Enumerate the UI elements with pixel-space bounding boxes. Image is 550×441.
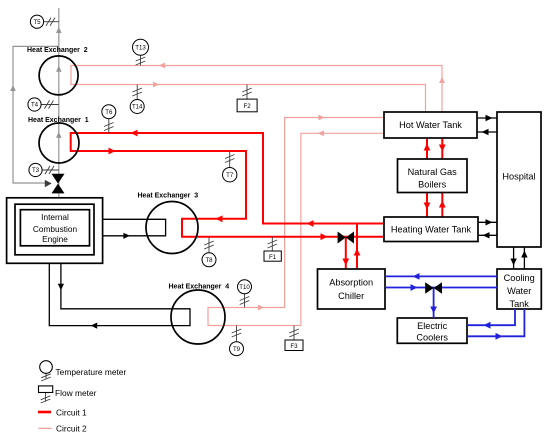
Heating Water Tank box — [384, 217, 478, 242]
temperature meter T9 — [230, 326, 244, 356]
circuit 1 pipe: Absorption Chiller return riser — [356, 224, 358, 270]
arrow right on circuit2 into Hot Water Tank — [319, 115, 325, 121]
pipe: valve down to Electric Coolers (blue) — [430, 288, 437, 318]
circuit 1 pipe: Heating Water Tank to HE1 to HE3 loop — [71, 133, 384, 237]
pipe: Hot Water Tank to boilers left — [426, 138, 428, 159]
svg-text:F3: F3 — [290, 343, 298, 350]
arrow left on engine-HE4 return — [91, 323, 97, 329]
legend: temperature meter symbol — [40, 361, 53, 381]
arrow up on main vertical in HE1 — [56, 132, 62, 138]
svg-text:T14: T14 — [132, 104, 143, 111]
svg-text:F2: F2 — [243, 103, 251, 110]
pipe: engine to HE4 loop — [49, 246, 190, 326]
pipe: Cooling Water Tank to Absorption Chiller (blue) — [385, 273, 497, 280]
pipe: Hospital to Hot Water Tank return — [477, 129, 497, 135]
flow meter F2 — [237, 85, 257, 112]
arrow right into valve — [45, 180, 52, 187]
svg-text:Flow meter: Flow meter — [55, 388, 97, 398]
arrow right on engine-HE3 lower pipe — [123, 233, 129, 239]
circuit 2 pipe: HE2 to Hot Water Tank loop — [71, 66, 442, 112]
heat exchanger 4 circle — [171, 290, 225, 344]
svg-text:T8: T8 — [205, 257, 213, 264]
pipe: Cooling Water Tank up to Hospital — [521, 247, 527, 269]
heat exchanger 1 circle — [39, 123, 79, 163]
pipe: Heating Water Tank to Hospital supply — [478, 219, 497, 225]
arrow up into boilers from Heating Water Tank — [439, 201, 446, 208]
svg-text:T9: T9 — [233, 346, 241, 353]
Cooling Water Tank box — [497, 269, 541, 309]
arrow down into Absorption Chiller — [342, 259, 349, 266]
pipe: engine to HE3 loop — [90, 219, 166, 236]
svg-text:Combustion: Combustion — [33, 224, 78, 234]
wire: left bypass loop — [13, 46, 59, 183]
svg-text:Chiller: Chiller — [338, 291, 364, 301]
svg-text:Tank: Tank — [509, 299, 529, 309]
valve V2 (three-way on circuit 1, horizontal bowtie) — [338, 232, 354, 244]
arrow up on main vertical below T5 — [56, 27, 62, 33]
svg-text:Circuit 2: Circuit 2 — [56, 424, 87, 434]
arrow left on circuit1 from Heating Water Tank — [307, 220, 314, 227]
temperature meter T4 — [28, 98, 59, 111]
svg-text:T4: T4 — [31, 102, 39, 109]
arrow left on circuit1 into HE1 — [131, 130, 138, 137]
svg-text:Heat Exchanger 4: Heat Exchanger 4 — [169, 284, 230, 291]
svg-text:Circuit 1: Circuit 1 — [56, 407, 87, 417]
Hot Water Tank box — [384, 112, 477, 138]
arrow left on circuit2 toward HE2 — [159, 63, 165, 69]
arrow up from Absorption Chiller — [354, 249, 361, 256]
circuit 2 pipe: Hot Water Tank to HE4 loop — [208, 118, 384, 326]
arrow right on circuit1 from HE1 — [109, 148, 116, 155]
svg-text:Heat Exchanger 2: Heat Exchanger 2 — [27, 47, 88, 54]
engine inner box — [20, 210, 89, 246]
svg-text:T7: T7 — [226, 172, 234, 179]
pipe: Hospital down to Cooling Water Tank — [510, 247, 516, 269]
svg-text:F1: F1 — [269, 254, 277, 261]
engine outer box — [7, 198, 103, 263]
svg-text:Heating Water Tank: Heating Water Tank — [391, 225, 472, 235]
svg-text:Electric: Electric — [417, 321, 448, 331]
temperature meter T14 — [130, 85, 144, 114]
flow meter F3 — [285, 326, 303, 351]
temperature meter T10 — [238, 280, 252, 308]
pipe: boilers to Heating Water Tank right — [441, 193, 443, 218]
Hospital box — [497, 112, 541, 247]
temperature meter T6 — [102, 105, 116, 133]
arrow right on circuit2 from HE2 — [153, 82, 159, 88]
Electric Coolers box — [397, 318, 467, 343]
arrow up on left bypass loop — [10, 85, 16, 91]
svg-text:Water: Water — [507, 286, 531, 296]
temperature meter T8 — [202, 238, 216, 267]
flow meter F1 — [264, 237, 281, 262]
circuit 1 pipe: valve to Absorption Chiller — [345, 238, 347, 270]
svg-text:T3: T3 — [32, 167, 40, 174]
svg-text:Heat Exchanger 3: Heat Exchanger 3 — [138, 193, 199, 200]
svg-text:Cooling: Cooling — [504, 273, 535, 283]
heat exchanger 2 circle — [39, 56, 78, 95]
temperature meter T5 — [30, 15, 58, 28]
pipe: Hospital to Heating Water Tank return — [478, 232, 497, 238]
svg-text:T6: T6 — [105, 109, 113, 116]
arrow right on circuit1 from HE3 — [321, 233, 328, 240]
legend: flow meter symbol — [39, 386, 53, 403]
svg-text:Heat Exchanger 1: Heat Exchanger 1 — [28, 117, 89, 124]
temperature meter T3 — [29, 163, 59, 176]
pipe: Absorption Chiller to Cooling Water Tank (blue) — [385, 284, 497, 291]
wire: engine-jacket main vertical pipe — [58, 8, 60, 198]
arrow right on circuit2 from HE4 — [258, 305, 264, 311]
arrow left on circuit1 into HE3 — [216, 215, 223, 222]
svg-text:Hospital: Hospital — [502, 171, 535, 181]
arrow up into Hot Water Tank — [424, 144, 431, 151]
arrow down into boilers — [439, 145, 446, 152]
pipe: boilers to Heating Water Tank left — [426, 193, 428, 218]
arrow up on circuit2 riser to HE2 — [439, 77, 445, 83]
svg-text:Engine: Engine — [42, 234, 68, 244]
svg-text:Temperature meter: Temperature meter — [56, 367, 127, 377]
svg-text:Internal: Internal — [41, 212, 69, 222]
valve V3 (blue line, horizontal bowtie) — [425, 282, 442, 294]
legend: Circuit 1 sample line — [38, 411, 51, 414]
label: Internal Combustion Engine — [33, 212, 78, 244]
svg-text:Hot Water Tank: Hot Water Tank — [399, 120, 462, 130]
pipe: Electric Coolers to Cooling Water Tank (blue) — [467, 309, 524, 340]
arrow down into Heating Water Tank — [424, 203, 431, 210]
pipe: Hot Water Tank to Hospital supply — [477, 115, 497, 121]
svg-text:Natural Gas: Natural Gas — [408, 167, 457, 177]
legend: Circuit 2 sample line — [39, 427, 52, 429]
svg-text:Coolers: Coolers — [416, 332, 448, 342]
arrow left on circuit2 from Hot Water Tank — [318, 130, 324, 136]
temperature meter T7 — [223, 151, 237, 182]
pipe: Cooling Water Tank to Electric Coolers (blue) — [467, 309, 515, 329]
pipe: Hot Water Tank to boilers right — [441, 138, 443, 159]
svg-text:T13: T13 — [135, 45, 146, 52]
heat exchanger 3 circle — [146, 202, 198, 254]
arrow up on main vertical in HE2 — [56, 66, 62, 72]
engine middle box — [15, 204, 94, 255]
Natural Gas Boilers box — [398, 159, 468, 193]
temperature meter T13 — [133, 39, 149, 65]
svg-text:T10: T10 — [239, 284, 250, 291]
Absorption Chiller box — [318, 269, 386, 309]
svg-text:Absorption: Absorption — [329, 277, 373, 287]
valve V1 (engine inlet, vertical bowtie) — [52, 174, 65, 194]
arrow down on engine-HE4 supply — [58, 284, 64, 290]
svg-text:Boilers: Boilers — [418, 180, 446, 190]
svg-text:T5: T5 — [33, 19, 41, 26]
